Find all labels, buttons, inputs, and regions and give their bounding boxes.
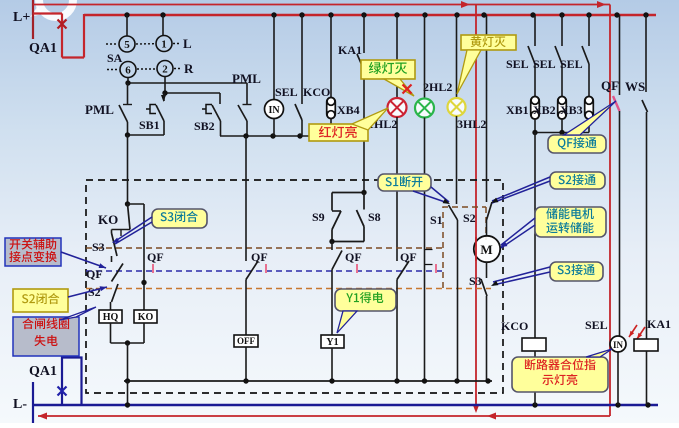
- KA1 contact column: [363, 15, 365, 53]
- svg-text:SEL: SEL: [560, 57, 583, 71]
- wire bracket to S3: [112, 229, 131, 231]
- svg-text:S3: S3: [92, 240, 105, 254]
- disconnect QA1 closed mark: [58, 20, 67, 29]
- coil HQ: [99, 310, 122, 323]
- dashed interlock box: [86, 180, 503, 393]
- callout S3-closed-r: [550, 262, 603, 281]
- callout S2 arrow: [492, 181, 550, 203]
- svg-text:KCO: KCO: [501, 319, 528, 333]
- current-path arrow 1: [461, 1, 470, 8]
- svg-text:SB1: SB1: [139, 118, 160, 132]
- callout yellow-lamp-off: [461, 35, 516, 50]
- svg-text:S1: S1: [430, 213, 443, 227]
- wire bus to L- bus: [127, 381, 129, 405]
- indicator IN top: [273, 15, 275, 100]
- SA contact 5: [119, 36, 135, 52]
- callout green pointer: [384, 79, 414, 96]
- svg-text:KCO: KCO: [303, 85, 330, 99]
- svg-text:L-: L-: [13, 397, 27, 412]
- disconnect link XB1: [531, 97, 540, 120]
- lamp 2HL2: [424, 15, 426, 99]
- svg-text:2HL2: 2HL2: [423, 80, 452, 94]
- wire bus row 2: [165, 92, 220, 94]
- red return arrow mid: [487, 413, 496, 420]
- coil KCO: [522, 338, 546, 351]
- linkage dashed brown line 2: [86, 288, 491, 290]
- SB1 press arrow: [161, 95, 166, 102]
- wire XB join bar: [535, 132, 589, 134]
- disconnect QA1 bottom mark: [58, 387, 67, 396]
- bottom bus dots: [125, 378, 130, 383]
- wire S9-S8 split: [332, 192, 364, 194]
- wire bus row 6: [128, 82, 247, 84]
- svg-text:XB1: XB1: [506, 103, 529, 117]
- node S9-S8 join: [329, 239, 334, 244]
- callout red pointer: [352, 108, 388, 130]
- disconnect QA1 bottom wire: [62, 358, 82, 406]
- current-path red line top: [33, 4, 610, 6]
- svg-text:2: 2: [162, 64, 168, 76]
- L+ bus junction dots: [124, 12, 129, 17]
- svg-text:SB2: SB2: [194, 119, 215, 133]
- svg-text:1: 1: [161, 39, 167, 51]
- wire to bottom bus: [127, 343, 129, 381]
- bottom control bus: [124, 380, 492, 382]
- red return arrow left end: [38, 413, 47, 420]
- callout green-lamp-off: [361, 60, 415, 79]
- wire to SA-1: [162, 15, 164, 36]
- svg-text:5: 5: [124, 39, 130, 51]
- svg-text:R: R: [184, 61, 194, 76]
- svg-text:XB3: XB3: [560, 103, 583, 117]
- callout breaker pointer: [586, 349, 612, 357]
- callout yellow pointer: [457, 50, 481, 94]
- QF aux contact Y1: [331, 242, 333, 251]
- linkage pink tick 4: [435, 264, 437, 273]
- callout motor arrow: [501, 225, 535, 248]
- SEL contact 1: [301, 15, 303, 104]
- svg-text:SA: SA: [107, 51, 123, 65]
- svg-text:S8: S8: [368, 210, 381, 224]
- callout motor: [535, 207, 606, 237]
- node HQ-KO join: [125, 340, 130, 345]
- red highlight wire vertical B: [609, 5, 611, 417]
- svg-text:3HL2: 3HL2: [457, 117, 486, 131]
- lamp 3HL2: [456, 15, 458, 98]
- wire OFF column upper: [245, 136, 247, 261]
- current-path arrow 2: [597, 1, 606, 8]
- push button OFF: [245, 280, 247, 336]
- SA dotted linkage row1: [106, 43, 118, 45]
- red return wire bottom: [38, 415, 610, 417]
- svg-text:S9: S9: [312, 210, 325, 224]
- svg-text:XB2: XB2: [533, 103, 556, 117]
- svg-text:QF: QF: [345, 250, 362, 264]
- L- bus wire: [33, 404, 658, 406]
- linkage dashed brown line 1: [86, 247, 443, 249]
- PML contact 2: [246, 83, 248, 104]
- WS contact: [645, 15, 647, 92]
- callout Y1-energized: [335, 289, 396, 311]
- wire S9-S8 join: [332, 241, 364, 243]
- svg-text:SEL: SEL: [585, 318, 608, 332]
- motor M: [486, 220, 488, 237]
- svg-text:XB4: XB4: [337, 103, 360, 117]
- QF aux contact left: [112, 264, 124, 282]
- QF aux contact OFF: [246, 261, 258, 280]
- SB2 button: [219, 93, 221, 104]
- svg-text:WS: WS: [625, 79, 645, 94]
- svg-text:QF: QF: [86, 267, 103, 281]
- node 6-PML junction: [125, 80, 130, 85]
- svg-text:KO: KO: [98, 212, 118, 227]
- S1 contact: [449, 205, 458, 220]
- svg-text:PML: PML: [85, 102, 114, 117]
- watermark circle logo: [39, 0, 73, 17]
- coil KO: [134, 310, 157, 323]
- SEL contact 3: [561, 15, 563, 46]
- SEL contact 4: [588, 15, 590, 46]
- node IN1 join: [270, 133, 275, 138]
- dashed brown box S1-S2: [443, 207, 486, 288]
- node branchB dot: [141, 280, 146, 285]
- node S9-S8 split: [361, 190, 366, 195]
- QF contact right (closed, highlighted): [619, 15, 621, 95]
- callout aux-change: [5, 238, 61, 266]
- wire join PML1-SB1: [127, 134, 164, 136]
- callout aux arrow: [61, 252, 106, 268]
- PML contact 1: [127, 83, 129, 104]
- node branch split: [125, 201, 130, 206]
- svg-text:KO: KO: [138, 312, 154, 323]
- SA contact 1: [156, 36, 172, 52]
- svg-text:L+: L+: [13, 10, 30, 25]
- svg-text:L: L: [183, 36, 192, 51]
- red highlight wire vertical A: [475, 5, 477, 411]
- S3 contact left: [111, 230, 113, 234]
- svg-text:S2: S2: [463, 211, 476, 225]
- red highlight arrow down: [473, 404, 480, 413]
- svg-text:SEL: SEL: [275, 85, 298, 99]
- svg-text:HQ: HQ: [103, 312, 119, 323]
- coil KA1: [634, 339, 658, 351]
- callout S3 arrow: [493, 272, 550, 285]
- S8 contact: [363, 193, 365, 210]
- lamp 1HL2: [396, 15, 398, 98]
- svg-text:QF: QF: [601, 78, 619, 93]
- wire SA-2 down: [164, 77, 166, 94]
- QF bracket lamp: [425, 250, 433, 265]
- wire branchB: [128, 203, 145, 205]
- callout QF-closed: [548, 135, 606, 153]
- callout red-lamp-on: [309, 124, 368, 141]
- QF aux contact lamp: [397, 261, 409, 280]
- callout S3l arrows: [114, 217, 152, 242]
- callout green red-x: [403, 85, 412, 94]
- disconnect QA1 top wire: [33, 12, 62, 14]
- callout coil pointer: [60, 307, 96, 320]
- node XB1 join: [532, 130, 537, 135]
- L+ bus wire: [84, 14, 656, 16]
- wire control bus 2: [220, 135, 331, 137]
- node L+ stub wire: [32, 0, 34, 39]
- disconnect link XB4: [330, 15, 332, 97]
- callout coil-deenergized: [13, 317, 79, 356]
- L- stub wire: [32, 382, 34, 423]
- svg-text:IN: IN: [268, 105, 280, 116]
- indicator IN bottom: [617, 336, 619, 405]
- lamp spark arrows: [629, 325, 637, 337]
- svg-text:OFF: OFF: [237, 336, 255, 346]
- S9 contact: [331, 193, 333, 211]
- wire SA-6 down: [127, 78, 129, 84]
- callout S2-closed-l: [13, 289, 68, 312]
- svg-text:6: 6: [125, 65, 131, 77]
- linkage pink tick 1: [152, 264, 154, 273]
- wire KCO coil feed: [534, 133, 536, 339]
- SA contact 6: [120, 62, 136, 78]
- callout S1 arrows: [413, 191, 448, 203]
- svg-text:SEL: SEL: [533, 57, 556, 71]
- node XB2 join: [559, 130, 564, 135]
- SEL contact 2: [534, 15, 536, 46]
- S3 contact right: [486, 262, 488, 279]
- SA dotted linkage row2: [107, 69, 119, 71]
- node SEL1 join: [297, 133, 302, 138]
- wire PML1 down to box: [127, 135, 129, 204]
- L- bus dots: [125, 402, 130, 407]
- linkage pink tick 2: [265, 264, 267, 273]
- linkage dashed blue line: [86, 270, 443, 272]
- callout breaker-closed: [512, 357, 608, 392]
- callout S3-closed-l: [152, 209, 207, 228]
- node PML1-SB1 join: [125, 132, 130, 137]
- disconnect link XB2: [558, 97, 567, 120]
- S2 contact: [486, 15, 488, 202]
- svg-text:QA1: QA1: [29, 364, 57, 379]
- svg-text:SEL: SEL: [506, 57, 529, 71]
- svg-text:M: M: [480, 242, 492, 257]
- svg-text:QA1: QA1: [29, 41, 57, 56]
- node 2-SB1 junction: [162, 90, 167, 95]
- callout QF pointer: [564, 101, 616, 135]
- svg-text:IN: IN: [613, 340, 624, 350]
- svg-text:S3: S3: [469, 274, 482, 288]
- callout S1-open: [378, 174, 431, 191]
- svg-text:KA1: KA1: [647, 317, 671, 331]
- KO interlock contact: [128, 204, 131, 230]
- svg-text:Y1: Y1: [326, 337, 338, 348]
- callout Y1 pointer: [337, 311, 357, 333]
- wire to SA-5: [126, 15, 128, 36]
- wire HQ-KO join: [110, 323, 112, 343]
- svg-text:KA1: KA1: [338, 43, 362, 57]
- linkage pink tick 3: [356, 264, 358, 273]
- svg-text:QF: QF: [251, 250, 268, 264]
- S2 contact left: [112, 284, 119, 302]
- node SB2 join: [243, 133, 248, 138]
- coil Y1: [331, 270, 333, 336]
- SA contact 2: [157, 61, 173, 77]
- SB1 button: [163, 93, 165, 101]
- disconnect link XB3: [585, 97, 594, 120]
- callout S2l arrow: [68, 287, 107, 297]
- svg-text:QF: QF: [147, 250, 164, 264]
- callout S2-closed-r: [550, 172, 605, 189]
